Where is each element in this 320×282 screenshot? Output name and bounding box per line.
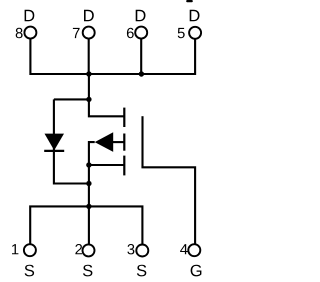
junction dot source node <box>86 162 91 167</box>
MOSFET Q1 substrate arrow (points to channel) <box>95 132 114 152</box>
pin 8 terminal circle <box>24 27 36 39</box>
wire pin 7 to bus <box>88 34 90 74</box>
wire bus down to drain node <box>88 74 90 99</box>
wire pin 8 to top bus, top drain bus, wire pin 5 to bus <box>30 34 195 74</box>
pin 6 number <box>127 28 134 38</box>
pin 2 number <box>75 244 82 254</box>
wire MOSFET source bar to trunk <box>89 164 124 166</box>
diode D1 vertical lead and bottom rail to trunk <box>54 99 89 183</box>
wire source rail connecting pins 1 and 3 <box>30 206 142 247</box>
junction dot drain node <box>86 97 91 102</box>
pin 8 label D <box>25 10 35 21</box>
pin 5 terminal circle <box>189 27 201 39</box>
junction dot bus / pin 6 <box>139 71 144 76</box>
junction dot source rail / trunk <box>86 204 91 209</box>
pin 5 number <box>178 28 185 38</box>
pin 1 number <box>12 244 18 254</box>
MOSFET Q1 channel bar (source contact) <box>123 156 125 176</box>
wire pin 6 to bus <box>140 34 142 74</box>
pin 8 number <box>16 28 23 38</box>
pin 1 terminal circle <box>24 244 36 256</box>
diode D1 cathode bar <box>44 150 64 152</box>
pin 5 label D <box>190 10 200 21</box>
MOSFET Q1 channel bar (body contact) <box>123 134 125 151</box>
pin 4 number <box>180 244 188 254</box>
pin 7 label D <box>84 10 94 21</box>
MOSFET Q1 gate electrode <box>141 116 143 167</box>
MOSFET Q1 channel bar (drain contact) <box>123 108 125 127</box>
pin 6 label D <box>136 10 146 21</box>
wire diode anode to drain node <box>54 98 89 100</box>
pin 4 terminal circle <box>188 244 200 256</box>
pin 4 label G <box>191 265 202 277</box>
pin 7 terminal circle <box>83 27 95 39</box>
wire arrow / body down to pin 2 (source trunk) <box>89 142 95 247</box>
pin 3 number <box>127 244 134 254</box>
pin 3 terminal circle <box>136 245 148 257</box>
pin 3 label S <box>137 265 146 277</box>
wire body bar to arrow <box>113 141 125 143</box>
junction dot bottom rail / trunk <box>86 181 91 186</box>
top edge mark <box>186 0 193 2</box>
wire drain node to MOSFET drain bar <box>89 99 124 116</box>
pin 2 label S <box>83 265 92 277</box>
pin 6 terminal circle <box>135 27 147 39</box>
diode D1 body (triangle, anode up) <box>45 134 65 151</box>
wire gate to pin 4 <box>141 167 195 247</box>
pin 7 number <box>73 28 80 38</box>
junction dot bus / pin 7 trunk <box>86 71 91 76</box>
pin 2 terminal circle <box>83 244 95 256</box>
pin 1 label S <box>25 265 34 277</box>
